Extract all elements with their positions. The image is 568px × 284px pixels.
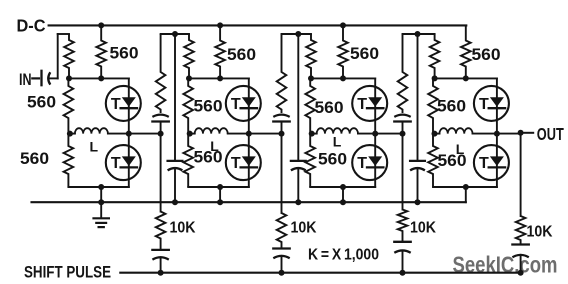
node bottom loop stage 3 [340, 184, 346, 190]
resistor 10K shift network 1 [156, 212, 166, 250]
svg-text:T: T [111, 155, 121, 172]
capacitor bypass to ground stage 3 [291, 161, 306, 202]
node bracket junction stage 2 [172, 31, 178, 37]
capacitor shift network 2 [273, 249, 289, 273]
wire OUT to 10K column [520, 133, 522, 216]
svg-text:T: T [357, 155, 367, 172]
inductor L stage 3 [310, 133, 317, 135]
wire ground drop stage 3 [342, 187, 344, 202]
node shift bus junction 4 [518, 270, 524, 276]
node ground bus stage 3 [340, 199, 346, 205]
node D stage 1 diode junction [126, 131, 132, 137]
resistor stage 4 560 middle [428, 78, 438, 133]
svg-text:560: 560 [27, 92, 56, 111]
wire coupling column to 10K (crosses ground bus) [281, 134, 283, 213]
resistor stage 3 input coupling (unlabeled) [306, 34, 316, 78]
node D stage 3 to coupling junction [400, 131, 406, 137]
svg-text:L: L [333, 134, 342, 150]
wire coupling bracket stage 3 [282, 33, 312, 35]
resistor stage 3 560 from D-C rail [338, 25, 348, 78]
tunnel diode T2b [226, 145, 261, 180]
resistor stage 4 560 from D-C rail [461, 25, 471, 78]
node D stage 1 left junction [67, 131, 73, 137]
resistor stage 4 input coupling (unlabeled) [430, 34, 440, 78]
node ground bus stage 1 [98, 199, 104, 205]
svg-text:560: 560 [318, 150, 347, 169]
node bracket junction stage 3 [295, 31, 301, 37]
resistor stage 4 560 lower [428, 134, 438, 187]
capacitor shift network 3 [394, 242, 410, 273]
inductor L stage 1 [68, 133, 75, 135]
svg-text:560: 560 [194, 97, 223, 116]
shift pulse bus [120, 272, 521, 274]
node shift bus junction 1 [158, 270, 164, 276]
resistor stage 2 560 middle [183, 78, 193, 133]
capacitor bypass to ground stage 2 [168, 161, 183, 202]
node shift bus junction 2 [279, 270, 285, 276]
svg-text:OUT: OUT [537, 124, 564, 144]
resistor stage 3 560 lower [305, 134, 315, 187]
svg-text:10K: 10K [291, 219, 318, 236]
ground bus [32, 201, 466, 203]
wire IN lead dash [32, 77, 39, 79]
wire bypass column stage 2 [174, 34, 176, 161]
wire bottom loop stage 3 [310, 186, 375, 188]
wire coupling bracket stage 4 [403, 33, 435, 35]
node OUT [518, 130, 524, 136]
resistor stage 1 560 lower [64, 134, 74, 187]
node D-C rail junction stage 3 [340, 22, 346, 28]
capacitor IN coupling [42, 71, 58, 85]
wire tunnel diode column stage 4 [496, 78, 498, 187]
svg-text:560: 560 [110, 44, 139, 63]
svg-text:T: T [357, 96, 367, 113]
resistor coupling network 3-4 (unlabeled) [398, 34, 408, 113]
wire bottom loop stage 4 [433, 186, 497, 188]
wire bypass column stage 3 [297, 34, 299, 161]
svg-text:T: T [111, 96, 121, 113]
node D stage 2 to coupling junction [279, 131, 285, 137]
wire coupling column to 10K (crosses ground bus) [402, 134, 404, 210]
node ground bus stage 2 [217, 199, 223, 205]
svg-text:D-C: D-C [17, 16, 46, 36]
node D stage 1 to coupling junction [158, 131, 164, 137]
svg-text:560: 560 [438, 151, 467, 170]
wire tunnel diode column stage 3 [374, 78, 376, 187]
capacitor shift network 1 [152, 250, 168, 273]
svg-text:T: T [479, 155, 489, 172]
D-C supply rail [49, 24, 467, 26]
inductor L stage 2 [188, 133, 195, 135]
node D-C rail junction stage 2 [217, 22, 223, 28]
capacitor coupling network 2-3 [273, 115, 289, 134]
svg-text:560: 560 [350, 44, 379, 63]
node ground bus bypass 4 [415, 199, 421, 205]
node bracket junction stage 4 [415, 31, 421, 37]
resistor stage 2 560 lower [183, 134, 193, 187]
tunnel diode T1a [106, 86, 141, 121]
wire bottom loop stage 1 [68, 186, 128, 188]
svg-text:560: 560 [20, 149, 49, 168]
tunnel diode T2a [226, 86, 261, 121]
resistor 10K shift network 3 [398, 210, 408, 242]
node A stage 1 junctions [66, 75, 72, 81]
node ground bus bypass 2 [172, 199, 178, 205]
svg-text:IN: IN [19, 70, 32, 89]
node A stage 3 junctions [308, 75, 314, 81]
resistor coupling network 2-3 (unlabeled) [277, 34, 287, 113]
svg-text:SHIFT PULSE: SHIFT PULSE [24, 263, 111, 282]
svg-text:560: 560 [472, 45, 501, 64]
node D stage 3 left junction [309, 131, 315, 137]
svg-text:10K: 10K [410, 219, 437, 236]
node D stage 3 diode junction [372, 131, 378, 137]
wire coupling column to 10K (crosses ground bus) [160, 134, 162, 212]
wire IN riser to stage 1 bracket [57, 34, 59, 78]
svg-text:560: 560 [437, 97, 466, 116]
wire node A stage 2 [189, 77, 249, 79]
tunnel diode T4a [474, 86, 509, 121]
node D stage 2 diode junction [246, 131, 252, 137]
capacitor bypass to ground stage 4 [410, 161, 425, 202]
wire OUT lead dash [524, 132, 533, 134]
wire node A stage 1 [69, 77, 129, 79]
svg-text:T: T [479, 96, 489, 113]
wire tunnel diode column stage 2 [248, 78, 250, 187]
wire ground drop stage 4 [465, 187, 467, 202]
node ground bus bypass 3 [295, 199, 301, 205]
resistor 10K shift network 2 [277, 213, 287, 249]
wire node A stage 3 [311, 77, 375, 79]
resistor coupling network 1-2 (unlabeled) [156, 34, 166, 113]
tunnel diode T3b [352, 145, 387, 180]
resistor stage 2 input coupling (unlabeled) [184, 34, 194, 78]
resistor stage 2 560 from D-C rail [215, 25, 225, 78]
svg-text:560: 560 [315, 98, 344, 117]
svg-text:T: T [231, 155, 241, 172]
svg-text:L: L [90, 138, 99, 154]
capacitor coupling network 1-2 [152, 115, 168, 134]
svg-text:10K: 10K [527, 224, 554, 241]
svg-text:560: 560 [194, 148, 223, 167]
wire node D extension stage 2 [249, 133, 282, 135]
wire tunnel diode column stage 1 [128, 78, 130, 187]
ground [94, 202, 109, 227]
node bottom loop stage 4 [463, 184, 469, 190]
capacitor coupling network 3-4 [394, 115, 410, 134]
inductor L stage 4 [433, 133, 440, 135]
resistor 10K shift network 4 [516, 216, 526, 245]
wire bottom loop stage 2 [188, 186, 249, 188]
wire coupling bracket stage 2 [161, 33, 189, 35]
resistor stage 1 560 middle [64, 78, 74, 133]
wire ground drop stage 1 [100, 187, 102, 202]
svg-text:K = X 1,000: K = X 1,000 [308, 247, 379, 264]
node A stage 2 junctions [186, 75, 192, 81]
wire node D extension stage 1 [129, 133, 161, 135]
node D-C rail junction stage 1 [98, 22, 104, 28]
resistor stage 1 input coupling (unlabeled) [64, 34, 74, 78]
svg-text:10K: 10K [170, 219, 197, 236]
node bottom loop stage 1 [98, 184, 104, 190]
wire node D extension stage 4 [497, 133, 521, 135]
resistor stage 1 560 from D-C rail [96, 25, 106, 78]
node D stage 4 left junction [432, 131, 438, 137]
svg-text:560: 560 [227, 45, 256, 64]
wire stage 1 input bracket [58, 33, 69, 35]
node bottom loop stage 2 [217, 184, 223, 190]
wire bypass column stage 4 [417, 34, 419, 161]
node A stage 4 junctions [432, 75, 438, 81]
node shift bus junction 3 [400, 270, 406, 276]
node D stage 2 left junction [187, 131, 193, 137]
tunnel diode T4b [474, 145, 509, 180]
wire node D extension stage 3 [375, 133, 402, 135]
svg-text:T: T [231, 96, 241, 113]
tunnel diode T1b [106, 145, 141, 180]
capacitor shift network 4 [512, 245, 528, 273]
wire node A stage 4 [435, 77, 497, 79]
wire ground drop stage 2 [219, 187, 221, 202]
tunnel diode T3a [352, 86, 387, 121]
resistor stage 3 560 middle [305, 78, 315, 133]
node D stage 4 diode junction [494, 131, 500, 137]
